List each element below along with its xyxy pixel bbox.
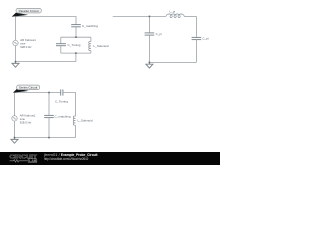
node: source bottom / ground (parallel): [15, 61, 17, 63]
wire: left branch upper lead: [60, 37, 62, 44]
node: C_matching / loop top (parallel): [75, 36, 77, 38]
capacitor C_pi (right): [192, 37, 202, 39]
voltage source V2 (AR Kalmus1 sine): [12, 116, 17, 121]
inductor L_pi: [166, 14, 184, 18]
capacitor C_matching (series circuit): [44, 115, 54, 117]
svg-text:C_pi: C_pi: [202, 37, 209, 41]
svg-text:LAB: LAB: [29, 159, 37, 163]
node: pi ground junction: [149, 62, 151, 64]
wire: shunt branch lower lead: [48, 118, 50, 138]
node: source bottom / ground (series): [14, 137, 16, 139]
wire: right branch lower lead: [90, 51, 92, 54]
wire: top rail parallel circuit: [16, 17, 77, 25]
node: loop bottom stub (parallel): [75, 52, 77, 54]
svg-text:C_Tuning: C_Tuning: [68, 43, 81, 47]
junction dots: [14, 16, 151, 139]
wire: shunt branch upper lead: [48, 93, 50, 116]
inductor L_Solenoid (series circuit): [73, 116, 75, 125]
ground (pi network): [146, 62, 153, 68]
capacitor C_pi (left): [145, 33, 155, 35]
wire: source top lead: [15, 17, 17, 41]
svg-text:C_Tuning: C_Tuning: [55, 99, 68, 103]
wire: source top lead (series): [14, 93, 16, 116]
svg-text:C_matching: C_matching: [55, 115, 71, 119]
footer bar: [0, 152, 220, 165]
wire: inductor bottom lead: [74, 125, 76, 137]
wire: pi right branch lower: [195, 40, 197, 63]
svg-text:C_matching: C_matching: [82, 24, 98, 28]
wire: source bottom lead (series): [14, 121, 16, 138]
wire: pi right branch upper: [195, 16, 197, 37]
wire: right branch upper lead: [90, 37, 92, 41]
pointer (parallel annotation): [12, 13, 29, 17]
svg-text:C_pi: C_pi: [156, 32, 163, 36]
voltage source V1 (AR Kalmus1 sine): [13, 40, 18, 45]
annotation: Parallel Circuit: [12, 8, 42, 16]
svg-text:928.0 Hz: 928.0 Hz: [20, 45, 32, 49]
node: pi input junction: [149, 16, 151, 18]
wire: pi left branch lower: [148, 35, 150, 62]
wire: pi top right lead: [184, 15, 196, 17]
wire: source bottom lead: [15, 46, 17, 62]
node: shunt branch top (series): [48, 92, 50, 94]
node: shunt branch bottom (series): [48, 137, 50, 139]
capacitor C_matching (top circuit): [71, 25, 81, 27]
wire: top rail series circuit (left of C_Tuning): [15, 92, 61, 94]
wire: loop bottom stub: [75, 53, 77, 62]
wire: parallel loop bottom: [61, 52, 91, 54]
capacitor C_Tuning (top circuit): [56, 44, 66, 46]
CircuitLab logo: [10, 154, 39, 163]
svg-text:Parallel Circuit: Parallel Circuit: [19, 9, 39, 13]
ground (series circuit): [11, 138, 18, 144]
wire: left branch lower lead: [60, 46, 62, 53]
annotation: Series Circuit: [13, 85, 40, 93]
capacitor C_Tuning (series circuit): [61, 89, 63, 95]
wire: pi bottom rail: [149, 61, 196, 63]
pointer (series annotation): [13, 89, 29, 93]
wire: top rail series circuit (right of C_Tuning): [63, 93, 76, 117]
wire: C_matching lower lead: [75, 27, 77, 37]
wire: bottom rail series circuit: [15, 137, 76, 139]
svg-text:928.0 Hz: 928.0 Hz: [20, 121, 32, 125]
svg-text:http://circuitlab.com/c/9kuzhh: http://circuitlab.com/c/9kuzhhz2642: [44, 157, 88, 161]
svg-text:L_Solenoid: L_Solenoid: [78, 119, 93, 123]
wire: bottom rail parallel circuit: [16, 61, 76, 63]
inductor L_Solenoid (top circuit): [89, 41, 91, 50]
svg-text:L_pi: L_pi: [170, 10, 176, 14]
wire: parallel loop top: [61, 36, 91, 38]
wire: pi left branch upper: [148, 16, 150, 33]
ground (parallel circuit): [12, 62, 19, 68]
svg-text:Series Circuit: Series Circuit: [19, 86, 38, 90]
wire: pi input: [113, 15, 166, 17]
svg-text:L_Solenoid: L_Solenoid: [94, 44, 109, 48]
